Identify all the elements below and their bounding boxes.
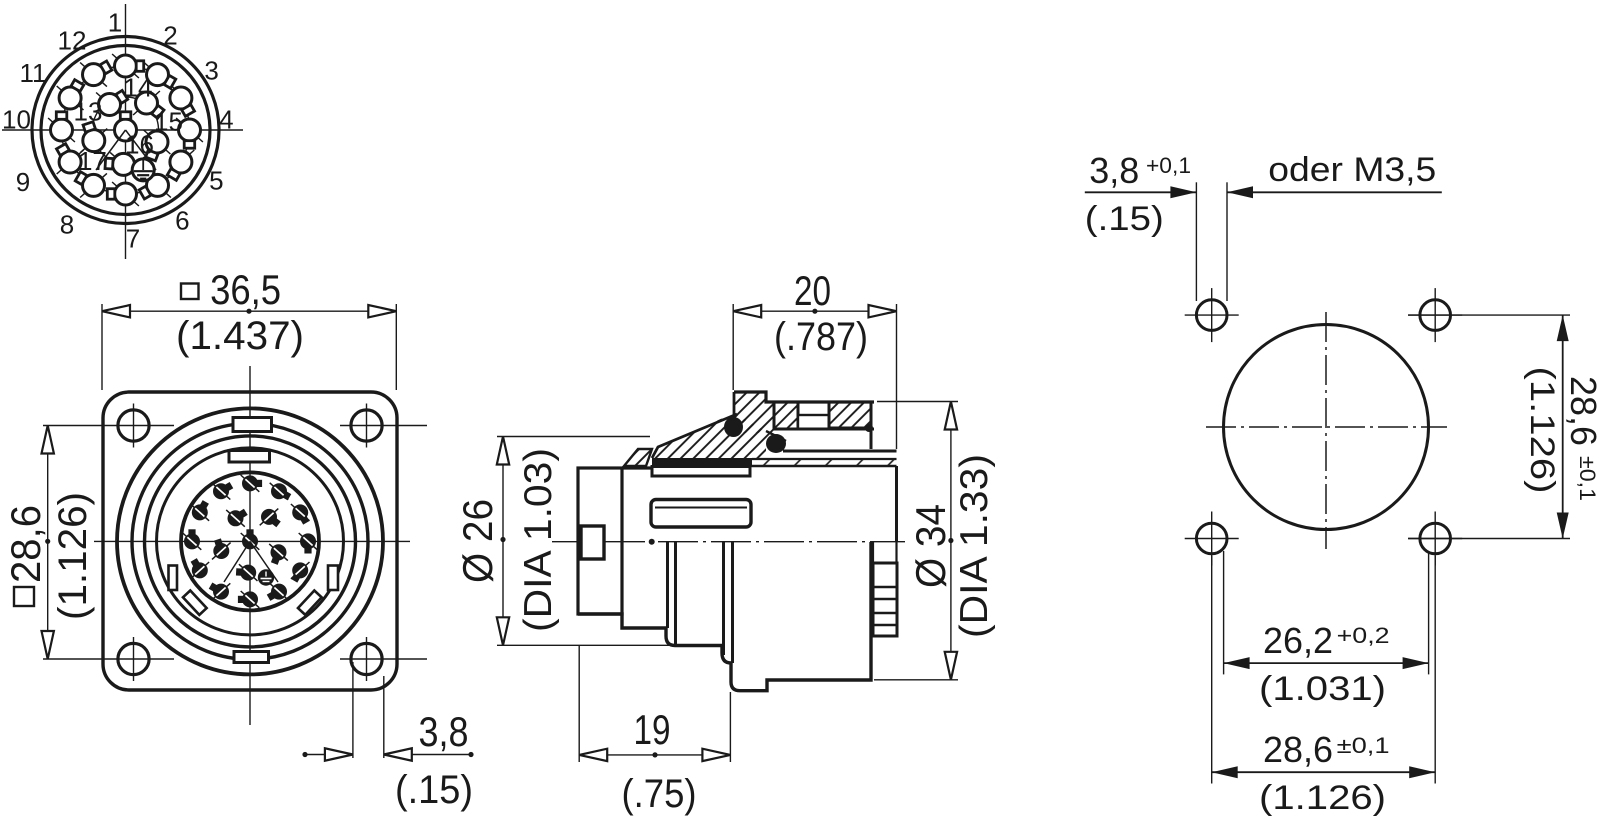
- earth contact (PE): [132, 159, 154, 181]
- insert circle: [181, 472, 319, 610]
- dimension 19 extension left: [578, 646, 580, 762]
- mounting hole top-right: [351, 410, 382, 441]
- svg-text:8: 8: [60, 210, 74, 240]
- key slot left: [169, 566, 178, 591]
- key tab top outer: [233, 418, 272, 432]
- contact pin 9: [56, 144, 83, 174]
- svg-text:20: 20: [794, 267, 831, 314]
- contact pin 13: [96, 90, 128, 116]
- contact pin 3: [168, 86, 195, 116]
- dimension dia34 extension top: [877, 401, 958, 403]
- front-view contact 10: [183, 529, 202, 549]
- conical washer wedge (hatched): [624, 449, 652, 466]
- body lower profile: [578, 542, 871, 691]
- hole center extension right (28,6): [1434, 556, 1436, 784]
- thread run-out dot: [865, 424, 873, 432]
- svg-text:3,8: 3,8: [1089, 150, 1139, 191]
- front-view contact 6: [267, 583, 289, 601]
- key tab bottom-left diagonal: [183, 591, 207, 615]
- thread notch (white): [798, 415, 829, 429]
- front shell plate top line: [783, 450, 897, 453]
- dimension 36,5 extension line right: [395, 304, 397, 390]
- svg-text:13: 13: [74, 97, 103, 127]
- pin-view center V slash left: [96, 130, 126, 170]
- coupling nut right gap band (hatched): [766, 402, 786, 440]
- hole-edge extension lines (3,8 dia): [1195, 182, 1197, 301]
- svg-text:5: 5: [209, 166, 223, 196]
- dimension line 26,2: [1224, 662, 1429, 664]
- leader line oder M3,5: [1227, 191, 1442, 193]
- mounting hole top-left: [118, 410, 149, 441]
- nut column left edge: [733, 392, 736, 418]
- front-view contact 5: [291, 562, 310, 583]
- svg-text:28,6: 28,6: [1263, 729, 1333, 770]
- nut right face: [870, 402, 873, 449]
- dimension line 20: [733, 310, 896, 312]
- svg-text:(1.126): (1.126): [1523, 367, 1561, 494]
- dimension line 28,6 right vertical: [1562, 315, 1564, 538]
- svg-text:16: 16: [125, 130, 154, 160]
- mounting hole bottom-left crosshair: [43, 658, 174, 660]
- front shell plate mid line: [752, 458, 897, 460]
- svg-text:(1.126): (1.126): [1259, 779, 1386, 817]
- front-view center V slash right: [250, 541, 278, 582]
- dimension line dia34: [950, 402, 952, 680]
- dimension 3,8 extension left (hole edge): [352, 662, 354, 758]
- panel hole bottom-right: [1420, 523, 1451, 554]
- svg-text:10: 10: [2, 105, 31, 135]
- rear body block: [578, 468, 622, 614]
- dimension line dia26: [502, 437, 504, 646]
- flange plate (solid black bar): [652, 458, 752, 467]
- svg-text:4: 4: [219, 105, 233, 135]
- svg-text:36,5: 36,5: [210, 266, 281, 313]
- key slot right: [328, 566, 338, 591]
- dimension 36,5 extension line left: [101, 304, 103, 390]
- thread block B (hatched): [774, 402, 798, 429]
- svg-text:11: 11: [20, 58, 47, 88]
- cut-out centerline horizontal (dash-dot): [1206, 426, 1447, 428]
- pin-circle outer (thin): [62, 66, 190, 194]
- svg-text:(.75): (.75): [622, 772, 697, 816]
- svg-text:6: 6: [175, 206, 189, 236]
- coupling thread circle: [132, 423, 368, 659]
- mounting hole top-right crosshair: [340, 425, 427, 427]
- svg-text:oder M3,5: oder M3,5: [1268, 151, 1436, 189]
- key tab top inner: [229, 451, 270, 463]
- panel hole top-left crosshair: [1185, 314, 1239, 316]
- dimension line 28,6 vertical: [47, 426, 49, 660]
- nut band right edge: [766, 431, 786, 441]
- svg-text:+0,1: +0,1: [1146, 153, 1191, 178]
- mounting hole bottom-left: [118, 643, 149, 674]
- svg-text:+0,2: +0,2: [1337, 623, 1390, 648]
- panel hole top-right: [1420, 300, 1451, 331]
- o-ring left (black): [724, 417, 743, 437]
- latch spring bar: [651, 500, 751, 528]
- front-view pin 16: [236, 564, 258, 581]
- nut bottom-right edge: [798, 428, 874, 431]
- svg-text:(.787): (.787): [774, 315, 868, 359]
- front-view contact 4: [299, 533, 318, 554]
- front-view contact 9: [191, 558, 210, 579]
- dimension line 19: [579, 754, 730, 756]
- dimension 20 extension left: [732, 304, 734, 390]
- contact pin 1: [112, 54, 144, 78]
- insert retaining circle: [157, 448, 344, 635]
- svg-text:12: 12: [58, 26, 87, 56]
- body top edge: [622, 466, 652, 469]
- panel hole bottom-right crosshair: [1408, 538, 1462, 540]
- dimension line 3,8 right part: [384, 754, 471, 756]
- svg-text:14: 14: [124, 73, 153, 103]
- svg-text:17: 17: [78, 146, 107, 176]
- front-view contact 2: [270, 483, 292, 501]
- front shell plate bottom line: [750, 465, 897, 468]
- svg-text:(1.031): (1.031): [1259, 670, 1386, 708]
- dimension line 28,6 bottom: [1212, 771, 1436, 773]
- panel hole bottom-left crosshair: [1185, 538, 1239, 540]
- contact pin 2: [144, 63, 176, 89]
- front-view contact 11: [191, 500, 210, 521]
- svg-text:1: 1: [108, 8, 122, 38]
- rear solder-side key tab: [581, 526, 604, 559]
- pin-circle inner (thin): [93, 97, 159, 163]
- panel hole top-left: [1196, 300, 1227, 331]
- flange boss circle: [117, 408, 383, 674]
- svg-text:(1.437): (1.437): [176, 314, 304, 358]
- contact pin 6: [139, 173, 171, 199]
- front-view center contact: [241, 529, 260, 549]
- hole center extension left (28,6): [1211, 556, 1213, 784]
- pin-layout view centerline vertical: [125, 4, 127, 259]
- svg-text:28,6: 28,6: [2, 505, 49, 583]
- front-view contact 7: [238, 591, 259, 608]
- contact pin 10: [48, 112, 75, 142]
- front-view center V slash left: [224, 541, 250, 582]
- svg-text:(DIA 1.33): (DIA 1.33): [953, 454, 996, 638]
- dimension dia26 extension bottom: [497, 644, 678, 646]
- contact pin 14: [133, 91, 164, 118]
- front shell hatch band: [752, 459, 897, 466]
- front view centerline horizontal: [94, 540, 410, 542]
- svg-text:3,8: 3,8: [419, 708, 469, 755]
- contact pin 8: [75, 172, 107, 198]
- nut band upper-left edge: [652, 414, 737, 458]
- svg-text:2: 2: [163, 21, 177, 51]
- svg-text:Ø 34: Ø 34: [907, 504, 954, 588]
- front-view contact 3: [291, 504, 310, 525]
- cut-out centerline vertical (dash-dot): [1325, 312, 1327, 549]
- step edge lines below axis: [666, 542, 669, 628]
- extension bottom-right hole to right dim: [1408, 538, 1570, 540]
- svg-text:±0,1: ±0,1: [1575, 456, 1600, 501]
- mounting hole top-left crosshair: [43, 425, 174, 427]
- contact pin 4: [176, 118, 203, 148]
- svg-text:19: 19: [634, 706, 671, 753]
- dimension 20 extension right: [896, 304, 898, 449]
- panel cut-out circle: [1224, 325, 1429, 530]
- panel hole top-right crosshair: [1408, 314, 1462, 316]
- svg-text:(DIA 1.03): (DIA 1.03): [517, 448, 560, 632]
- dimension text square 36,5: [181, 284, 199, 300]
- circle tangent extension right: [1428, 551, 1430, 674]
- svg-text:15: 15: [154, 107, 183, 137]
- contact pin 5: [167, 150, 194, 180]
- nut top edge: [734, 392, 874, 402]
- dimension line 3,8 left part: [305, 754, 353, 756]
- right face above axis: [895, 466, 898, 542]
- pin-view center V slash right: [126, 130, 157, 170]
- extension top-right hole to right dim: [1408, 314, 1570, 316]
- svg-text:28,6: 28,6: [1563, 376, 1600, 446]
- front-view pin 15: [269, 544, 288, 565]
- front-view contact 12: [212, 482, 234, 500]
- contact pin 7: [107, 182, 139, 206]
- dimension dia26 extension top: [497, 436, 650, 438]
- contact pin 17: [80, 122, 107, 153]
- svg-text:9: 9: [16, 167, 30, 197]
- key tab bottom-right diagonal: [298, 591, 322, 615]
- pin-layout outer shell circle: [32, 37, 219, 224]
- contact pin 16: [105, 152, 137, 176]
- side view centerline (dash-dot): [552, 541, 905, 543]
- leader line 3,8: [1085, 191, 1197, 193]
- dimension text square 28,6 (rotated): [2, 505, 49, 606]
- center contact: [115, 112, 137, 141]
- coupling nut diagonal band (hatched): [652, 413, 766, 458]
- pin-layout view centerline horizontal: [2, 129, 243, 131]
- panel hole bottom-left: [1196, 523, 1227, 554]
- coupling nut column (hatched): [734, 392, 766, 433]
- front-view pin 14: [260, 509, 281, 528]
- contact pin 15: [144, 130, 171, 161]
- shell circle: [145, 436, 356, 647]
- circle tangent extension left: [1223, 551, 1225, 674]
- svg-text:±0,1: ±0,1: [1337, 733, 1390, 758]
- front-view contact 8: [209, 582, 231, 600]
- svg-text:7: 7: [126, 224, 140, 254]
- pin-layout insert circle: [41, 46, 210, 215]
- thread block C (hatched): [829, 402, 871, 428]
- svg-text:26,2: 26,2: [1263, 620, 1333, 661]
- front-view pin 17: [212, 538, 231, 559]
- svg-text:(1.126): (1.126): [51, 492, 95, 620]
- key tab bottom: [234, 652, 269, 663]
- svg-text:Ø 26: Ø 26: [454, 499, 501, 583]
- front view square flange: [103, 392, 397, 690]
- o-ring right (black): [766, 434, 786, 453]
- svg-text:3: 3: [204, 56, 218, 86]
- mounting hole bottom-right crosshair: [340, 658, 427, 660]
- contact pin 11: [57, 80, 84, 110]
- mounting hole bottom-right: [351, 643, 382, 674]
- svg-text:(.15): (.15): [1085, 200, 1164, 238]
- front view centerline vertical: [249, 366, 251, 725]
- front-view contact 1: [241, 475, 262, 492]
- dimension line 36,5: [102, 310, 396, 312]
- svg-text:(.15): (.15): [395, 768, 473, 812]
- front-view earth contact: [258, 569, 274, 585]
- text 28,6 plus-minus 0,1 rotated: [1563, 376, 1600, 501]
- dimension 19 extension right: [729, 692, 731, 762]
- front-view pin 13: [226, 509, 248, 527]
- dimension dia34 extension bottom: [874, 679, 958, 681]
- contact insert teeth (front): [873, 563, 897, 636]
- contact pin 12: [80, 61, 112, 87]
- flange plate lower rect: [652, 467, 750, 477]
- dimension 3,8 extension right (hole edge): [383, 676, 385, 758]
